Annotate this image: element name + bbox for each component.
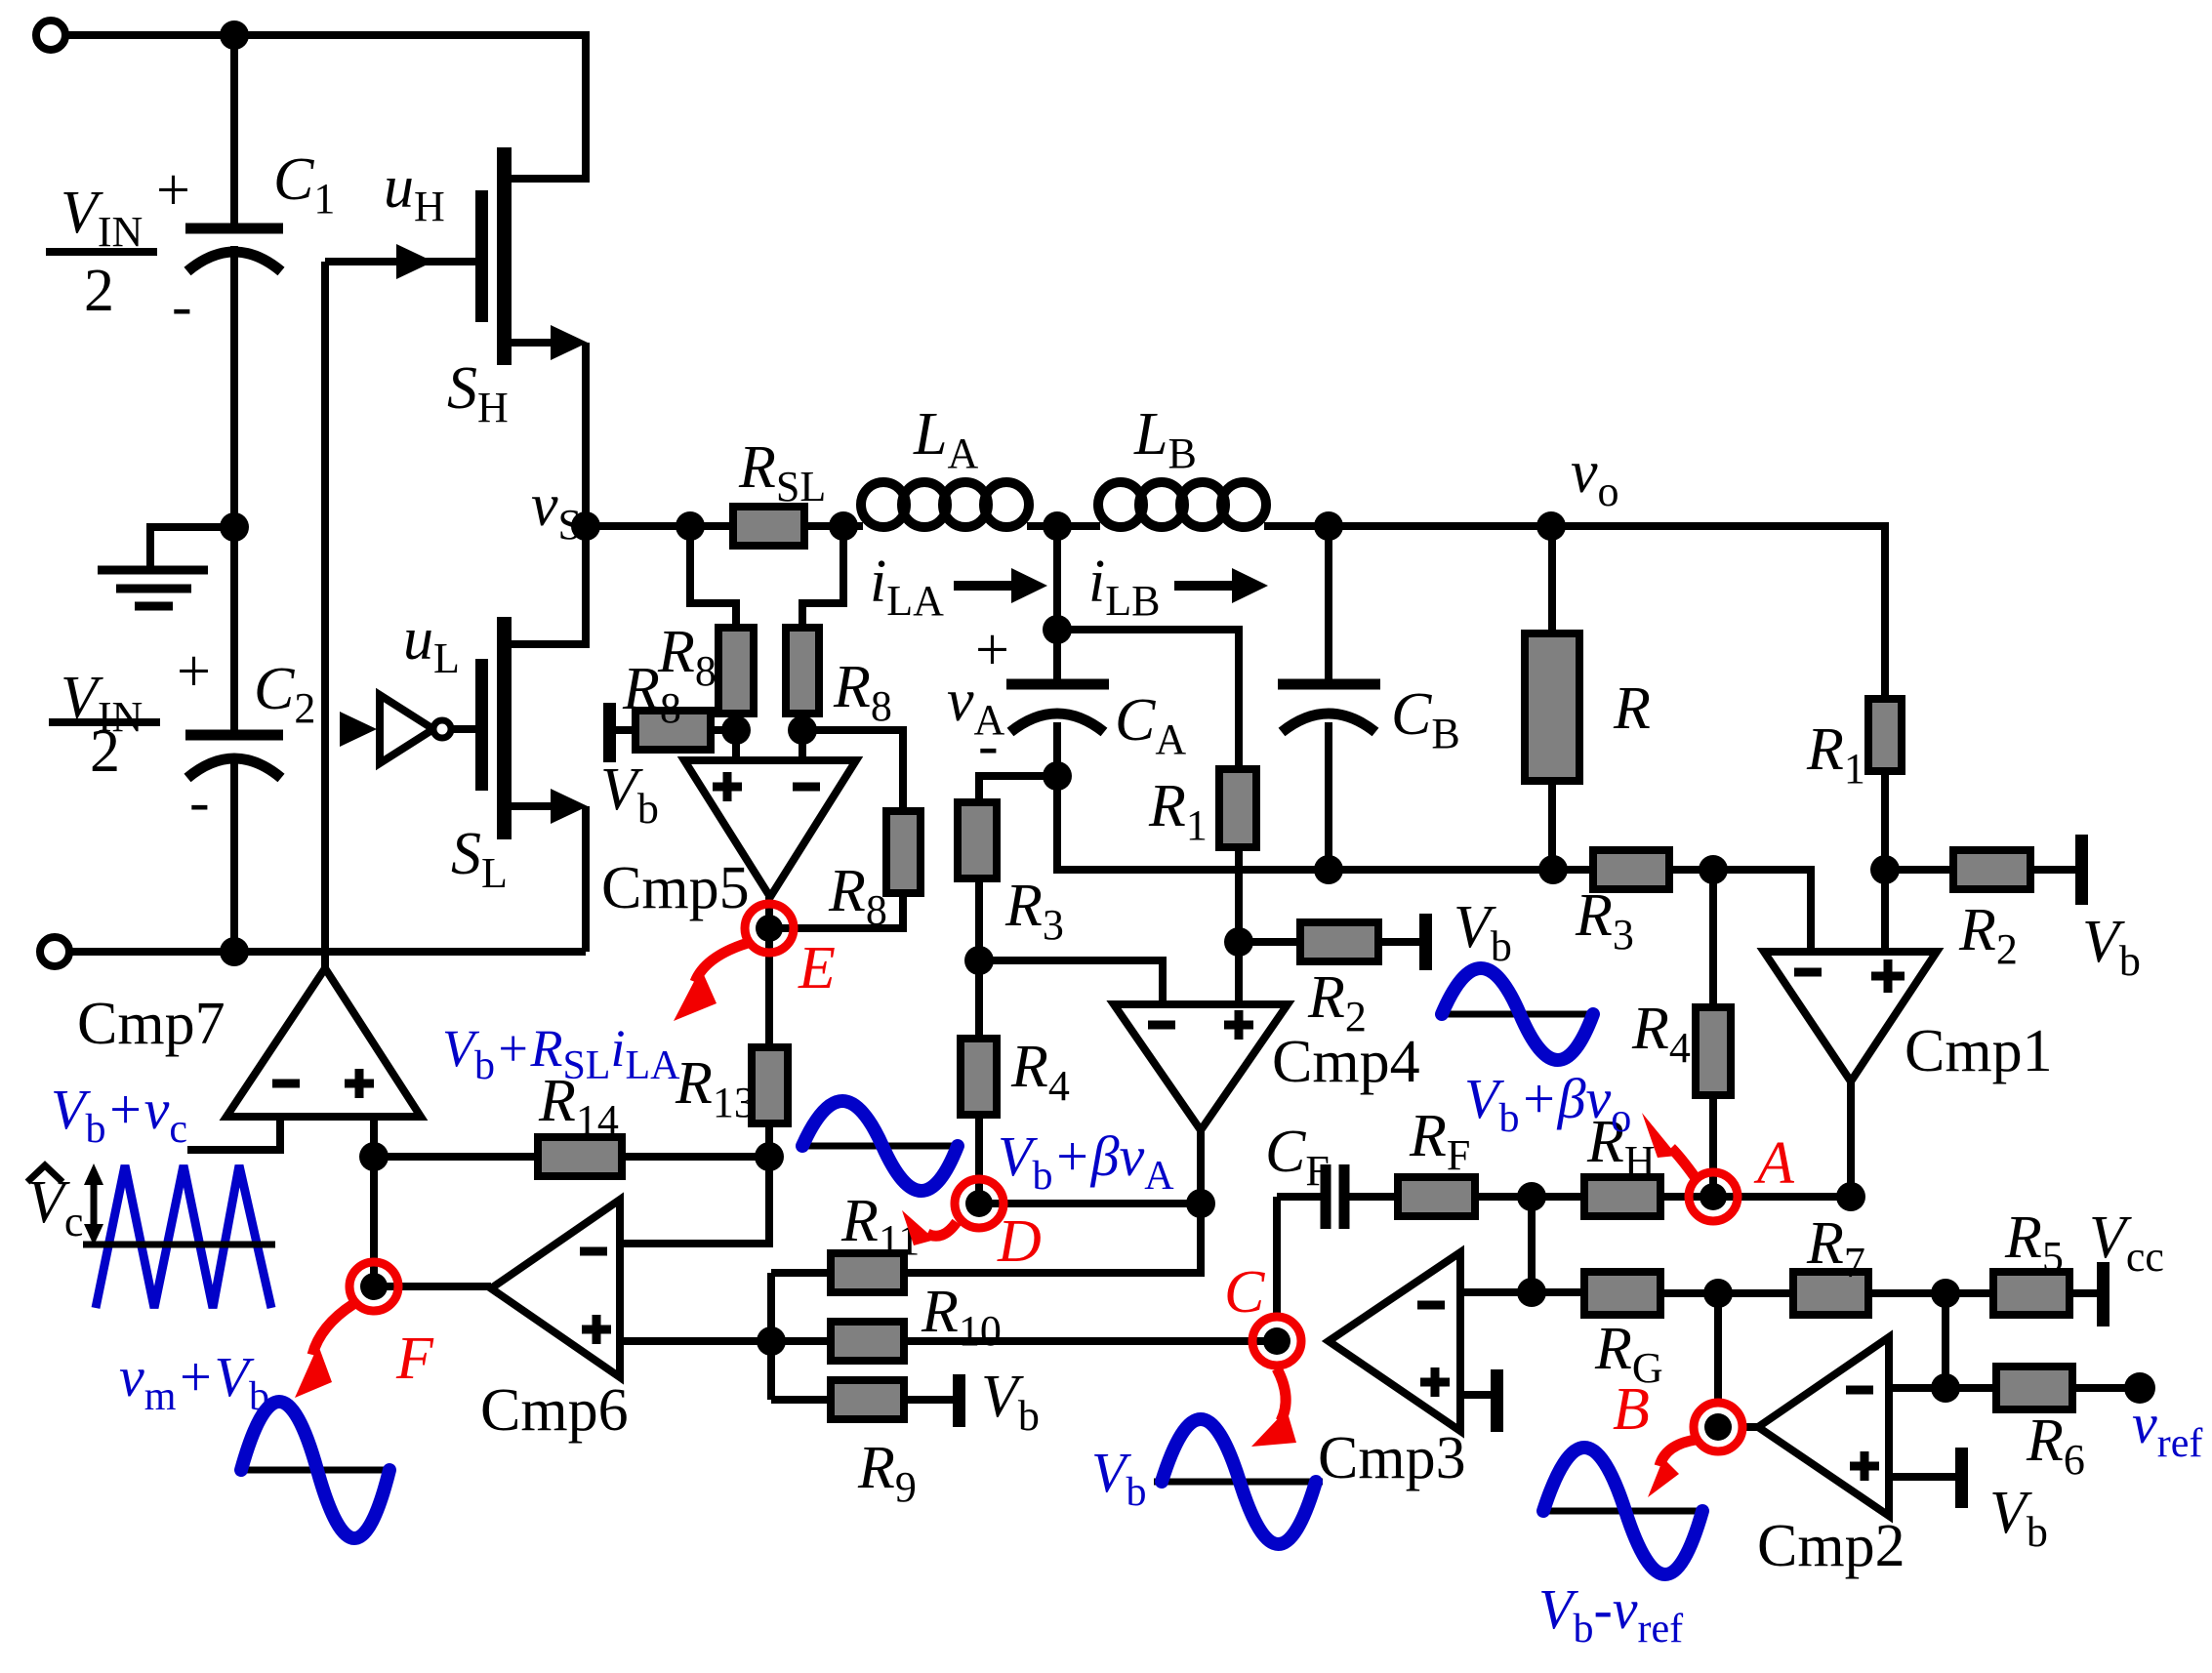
svg-text:vS: vS	[531, 472, 582, 549]
svg-text:-: -	[189, 769, 210, 836]
svg-text:VIN: VIN	[61, 180, 143, 256]
svg-text:iLA: iLA	[870, 549, 944, 625]
svg-text:B: B	[1613, 1376, 1650, 1443]
svg-text:Cmp1: Cmp1	[1905, 1018, 2053, 1084]
svg-text:R3: R3	[1575, 882, 1634, 959]
svg-text:RF: RF	[1409, 1103, 1470, 1179]
svg-text:R4: R4	[1631, 996, 1691, 1072]
svg-text:C2: C2	[254, 656, 315, 732]
svg-text:Cmp7: Cmp7	[77, 991, 225, 1057]
svg-text:E: E	[798, 935, 836, 1001]
svg-text:R6: R6	[2026, 1408, 2085, 1484]
svg-text:Cmp3: Cmp3	[1318, 1425, 1466, 1491]
svg-text:2: 2	[90, 718, 120, 785]
svg-text:R7: R7	[1806, 1210, 1865, 1286]
svg-text:uH: uH	[384, 154, 445, 230]
svg-text:Cmp5: Cmp5	[601, 855, 750, 921]
svg-text:LB: LB	[1133, 401, 1197, 477]
svg-text:Vb+vc: Vb+vc	[51, 1078, 187, 1152]
svg-text:Cmp2: Cmp2	[1757, 1513, 1905, 1579]
svg-text:+: +	[177, 638, 211, 705]
svg-text:+: +	[975, 617, 1009, 683]
svg-text:Vb: Vb	[981, 1364, 1040, 1440]
svg-text:R9: R9	[857, 1435, 917, 1511]
svg-text:Vb: Vb	[1091, 1441, 1146, 1515]
svg-text:uL: uL	[403, 606, 460, 682]
svg-text:R13: R13	[675, 1050, 756, 1126]
svg-text:Vc: Vc	[27, 1169, 83, 1245]
svg-text:A: A	[1753, 1130, 1795, 1197]
svg-text:+: +	[156, 157, 190, 224]
svg-text:Vb: Vb	[600, 756, 659, 833]
svg-text:R5: R5	[2004, 1204, 2064, 1281]
svg-text:R8: R8	[828, 858, 887, 934]
svg-text:R4: R4	[1010, 1034, 1070, 1110]
svg-text:2: 2	[84, 258, 114, 324]
svg-text:-: -	[978, 713, 999, 779]
svg-text:F: F	[395, 1326, 434, 1392]
svg-text:R8: R8	[833, 654, 892, 730]
svg-text:R2: R2	[1958, 897, 2018, 973]
svg-text:Vb: Vb	[1454, 894, 1512, 970]
svg-text:-: -	[172, 273, 192, 340]
svg-text:Vcc: Vcc	[2089, 1204, 2164, 1281]
svg-text:Vb-vref: Vb-vref	[1538, 1577, 1683, 1652]
svg-text:LA: LA	[913, 401, 978, 477]
svg-text:R: R	[1613, 675, 1651, 742]
svg-text:iLB: iLB	[1088, 549, 1160, 625]
svg-text:SH: SH	[447, 355, 509, 431]
svg-text:Cmp6: Cmp6	[480, 1377, 629, 1444]
svg-text:Vb: Vb	[1989, 1480, 2048, 1556]
svg-text:Vb: Vb	[2082, 909, 2141, 985]
svg-text:CA: CA	[1115, 687, 1186, 763]
svg-text:R1: R1	[1806, 716, 1865, 793]
svg-text:vref: vref	[2132, 1392, 2202, 1466]
svg-text:R3: R3	[1004, 873, 1064, 949]
svg-text:C: C	[1224, 1259, 1265, 1326]
svg-text:vo: vo	[1571, 439, 1619, 515]
svg-text:R1: R1	[1148, 773, 1208, 849]
svg-text:Vb+βvA: Vb+βvA	[998, 1124, 1174, 1199]
svg-text:R10: R10	[921, 1279, 1002, 1355]
svg-text:RSL: RSL	[738, 434, 826, 510]
svg-text:vm+Vb: vm+Vb	[119, 1345, 269, 1419]
svg-text:C1: C1	[273, 146, 335, 223]
svg-text:Vb+βvo: Vb+βvo	[1464, 1067, 1631, 1141]
svg-text:D: D	[997, 1208, 1042, 1275]
svg-text:CB: CB	[1391, 681, 1460, 757]
svg-text:CF: CF	[1265, 1119, 1330, 1195]
svg-text:Cmp4: Cmp4	[1272, 1029, 1420, 1095]
